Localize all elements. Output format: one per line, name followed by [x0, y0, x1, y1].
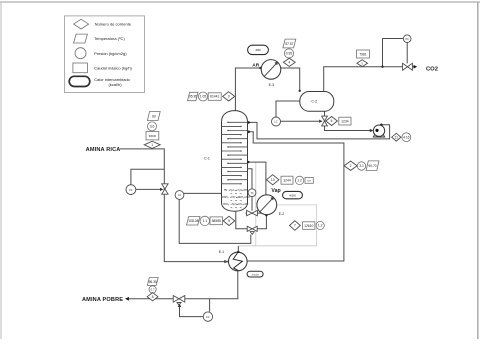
svg-text:3.6: 3.6	[150, 125, 155, 129]
stream 3 number diamond 3	[223, 92, 235, 101]
svg-text:95.95: 95.95	[189, 95, 197, 99]
heat duty stadium E-3	[248, 45, 269, 54]
instrument PC circle	[403, 35, 411, 43]
stream 5 number diamond 5	[357, 60, 368, 67]
node E-2 bottom inlet dot	[265, 214, 268, 217]
svg-text:(kcal/h): (kcal/h)	[108, 82, 122, 87]
instrument LC drum circle	[272, 117, 281, 126]
stream 8 pressure circle 0.7	[149, 286, 156, 293]
svg-text:FC: FC	[129, 189, 133, 192]
drum C-2	[300, 92, 334, 112]
wire: C-2 bottoms to pump suction	[325, 111, 371, 130]
svg-text:CO2: CO2	[426, 67, 438, 73]
svg-text:11: 11	[395, 135, 399, 139]
svg-text:1234: 1234	[341, 119, 349, 123]
svg-text:57.57: 57.57	[285, 42, 293, 46]
svg-text:108.08: 108.08	[188, 219, 198, 223]
stream 10 rectangle small	[305, 178, 313, 184]
legend temperature parallelogram	[74, 34, 126, 43]
arrow AMINA POBRE	[125, 297, 129, 301]
svg-text:2: 2	[350, 164, 352, 168]
svg-text:12610: 12610	[304, 224, 313, 228]
svg-text:LC: LC	[274, 121, 277, 124]
label CO2	[426, 67, 438, 73]
wire: E-1 bottom to AMINA POBRE	[128, 271, 237, 299]
wire: FC command to feed valve	[136, 188, 164, 191]
group box around reboiler section	[238, 162, 316, 246]
stream 9 flow rectangle	[210, 217, 223, 225]
stream 9 number diamond 9	[223, 216, 235, 225]
svg-text:6: 6	[331, 119, 333, 123]
svg-text:HCO₃⁻+H₂O⇌CO₂+OH⁻: HCO₃⁻+H₂O⇌CO₂+OH⁻	[223, 202, 249, 206]
node C-2 inlet dot	[299, 90, 301, 92]
label C-1	[204, 157, 210, 161]
stream 3 flow rectangle	[208, 93, 221, 101]
column sump reaction equations	[222, 188, 250, 209]
stream 8 number diamond 8	[147, 293, 158, 301]
stream 4 number diamond 4	[283, 58, 295, 66]
column C-1 trays	[222, 122, 248, 185]
svg-text:60: 60	[152, 114, 156, 118]
stream 4 pressure circle 0.95	[284, 49, 293, 58]
label AR	[252, 63, 259, 69]
wire: overhead vapor column top to E-3 (AR)	[235, 68, 261, 112]
stream 7 pressure circle 1.2	[316, 221, 324, 229]
pump P-1	[373, 125, 385, 137]
instrument TC circle	[248, 189, 256, 197]
legend pressure circle	[75, 48, 127, 59]
svg-text:RNH₃⁺+OH⁻⇌RNH₂+H₂O: RNH₃⁺+OH⁻⇌RNH₂+H₂O	[222, 195, 250, 199]
heat exchanger E-1	[229, 252, 248, 271]
wire: column bottoms to E-2	[236, 211, 267, 229]
stream 2 pressure circle 3.1	[357, 162, 365, 170]
stream 2 temperature parallelogram	[366, 161, 379, 171]
svg-text:aq aq aq: aq aq aq	[230, 193, 241, 195]
svg-text:0.95: 0.95	[286, 52, 293, 56]
svg-text:10: 10	[271, 178, 275, 182]
svg-text:1.1: 1.1	[203, 219, 208, 223]
instrument FC circle feed	[126, 185, 136, 195]
svg-text:Número de corriente: Número de corriente	[95, 22, 132, 27]
legend stream-number diamond	[74, 19, 132, 29]
svg-text:C-2: C-2	[311, 100, 317, 104]
stream 7 rectangle 12610	[303, 222, 315, 230]
legend heat-duty stadium	[69, 76, 130, 87]
svg-text:3.1: 3.1	[359, 164, 364, 168]
wire: PC sensing and command loop	[383, 39, 408, 67]
svg-text:1244: 1244	[283, 178, 291, 182]
svg-text:E-3: E-3	[269, 83, 275, 87]
svg-text:E-2: E-2	[279, 212, 285, 216]
wire: FC sensing tap	[131, 169, 165, 184]
svg-text:56.35: 56.35	[149, 280, 157, 284]
stream 3 pressure circle 1.05	[199, 92, 208, 101]
svg-text:Presión (kg/cm2g): Presión (kg/cm2g)	[94, 51, 127, 56]
svg-text:LC: LC	[178, 194, 181, 197]
stream 1 flow rectangle 60000	[146, 132, 159, 140]
svg-text:Caudal másico (kg/h): Caudal másico (kg/h)	[94, 66, 132, 71]
wire: LC command to valve	[281, 120, 323, 123]
stream 9 temperature parallelogram	[187, 217, 201, 226]
svg-text:3: 3	[228, 95, 230, 99]
stream 6 flow rectangle 1234	[339, 117, 351, 125]
stream 5 flow rectangle 7981	[357, 50, 370, 58]
stream 1 pressure circle 3.6	[148, 122, 157, 131]
valve CO2 control valve	[403, 63, 413, 70]
node PC tap dot	[381, 66, 383, 68]
wire: pump discharge reflux return to column	[248, 122, 390, 138]
svg-text:aq aq aq: aq aq aq	[230, 200, 241, 202]
svg-text:Temperatura (ºC): Temperatura (ºC)	[94, 36, 125, 41]
valve lean amine valve	[173, 296, 185, 306]
svg-text:1: 1	[151, 143, 153, 147]
svg-text:Vap: Vap	[271, 188, 280, 194]
svg-text:60000: 60000	[149, 134, 157, 138]
svg-text:4: 4	[288, 61, 290, 65]
svg-text:8: 8	[152, 295, 154, 299]
svg-text:40000: 40000	[289, 194, 296, 197]
valve bottoms valve	[247, 226, 257, 234]
legend box	[64, 16, 144, 93]
stream 1 number diamond 1	[144, 141, 160, 148]
svg-text:AR: AR	[252, 63, 259, 69]
wire: E-3 outlet down to drum C-2	[281, 68, 300, 91]
arrow into E-1	[224, 260, 230, 263]
stream 7 number diamond 7	[290, 221, 301, 231]
wire: CO2 valve outlet	[412, 66, 414, 68]
stream 8 temperature parallelogram 56.35	[147, 278, 158, 286]
svg-text:90.70: 90.70	[368, 164, 376, 168]
svg-text:3080: 3080	[255, 49, 261, 52]
node column reflux nozzle dot	[247, 121, 250, 124]
wire: LC sensing from C-2	[276, 101, 300, 117]
svg-text:61441: 61441	[210, 95, 219, 99]
label Vap	[271, 188, 280, 194]
wire: rich amine feed AMINA RICA to E-1	[120, 149, 227, 262]
label E-2	[279, 212, 285, 216]
wire: FC loop lean amine	[180, 299, 210, 317]
svg-text:7: 7	[294, 224, 296, 228]
stream 11 pressure circle 4.16	[402, 133, 411, 142]
arrow pump suction	[370, 129, 374, 132]
svg-text:AMINA POBRE: AMINA POBRE	[82, 297, 123, 303]
svg-text:202000: 202000	[251, 274, 259, 276]
svg-text:aq aq aq: aq aq aq	[230, 207, 241, 209]
svg-text:1.2: 1.2	[297, 179, 302, 183]
node vapor return nozzle dot	[247, 161, 249, 163]
legend mass-flow rectangle	[73, 63, 133, 73]
stream 4 temperature parallelogram	[283, 39, 296, 48]
wire: C-2 vapor to CO2 valve	[324, 67, 403, 92]
wire: E-1 hot outlet riser and feed to column	[247, 132, 344, 261]
node column feed nozzle dot	[247, 131, 250, 134]
valve thermosiphon valve	[246, 210, 262, 215]
heat duty stadium E-1	[247, 271, 263, 277]
instrument FC circle lean	[203, 312, 212, 321]
instrument LC column circle	[175, 191, 184, 200]
wire: LC sensing tap on column	[184, 192, 222, 194]
svg-text:1.2: 1.2	[318, 224, 323, 228]
svg-text:AMINA RICA: AMINA RICA	[86, 147, 121, 153]
label E-1	[219, 250, 225, 254]
stream 10 pressure circle 1.2	[295, 176, 303, 184]
stream 10 rectangle 1244	[281, 176, 293, 184]
node pump discharge dot	[380, 124, 383, 127]
label AMINA POBRE	[82, 297, 123, 303]
svg-text:7981: 7981	[359, 52, 367, 56]
svg-text:PC: PC	[406, 38, 410, 41]
svg-text:FC: FC	[206, 316, 209, 319]
svg-text:1.05: 1.05	[200, 95, 207, 99]
svg-text:C-1: C-1	[204, 157, 210, 161]
heat duty stadium E-2	[283, 191, 303, 198]
stream 10 number diamond 10	[267, 175, 279, 185]
stream 1 temperature parallelogram 60	[147, 112, 160, 121]
wire: LC command loop to bottoms valve	[179, 199, 251, 243]
node AR junction dot	[259, 67, 261, 69]
wire: TC stem and sensing	[248, 169, 253, 211]
svg-text:0.7: 0.7	[151, 288, 155, 292]
arrow CO2	[414, 65, 418, 69]
svg-text:TC: TC	[250, 192, 253, 195]
valve C-2 level valve	[322, 116, 328, 126]
svg-text:9: 9	[228, 219, 230, 223]
svg-text:58585: 58585	[212, 219, 221, 223]
stream 11 number diamond 11	[392, 133, 401, 141]
heat exchanger E-3 (air cooler)	[261, 60, 281, 80]
stream 3 temperature parallelogram	[188, 92, 199, 100]
wire: E-1 top stub	[237, 246, 239, 253]
stream 6 number diamond 6	[326, 117, 338, 126]
stream 9 pressure circle 1.1	[200, 216, 209, 225]
label E-3	[269, 83, 275, 87]
wire: E-2 vapor return to column	[248, 162, 266, 195]
heat exchanger E-2 (reboiler)	[257, 195, 277, 215]
stream 2 number diamond 2	[344, 161, 357, 170]
svg-text:E-1: E-1	[219, 250, 225, 254]
label AMINA RICA	[86, 147, 121, 153]
valve feed valve (vertical)	[162, 184, 168, 194]
svg-text:HS⁻+H₂O ⇌ H₂S+OH⁻: HS⁻+H₂O ⇌ H₂S+OH⁻	[224, 188, 248, 192]
svg-text:4.16: 4.16	[403, 135, 410, 139]
arrow FC to valve	[178, 304, 181, 307]
column C-1 shell	[222, 111, 248, 212]
